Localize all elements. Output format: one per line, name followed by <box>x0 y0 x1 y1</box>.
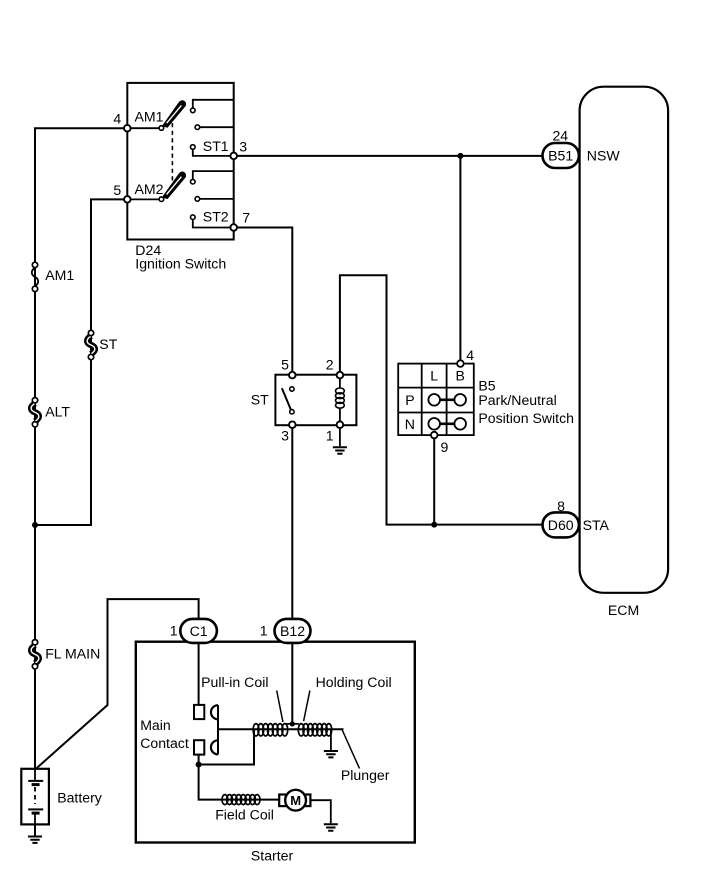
svg-text:8: 8 <box>557 498 565 514</box>
svg-text:7: 7 <box>242 209 250 225</box>
svg-text:N: N <box>405 416 415 432</box>
svg-text:Contact: Contact <box>140 735 189 751</box>
svg-text:Battery: Battery <box>57 790 103 806</box>
svg-text:1: 1 <box>326 428 334 444</box>
svg-text:AM1: AM1 <box>45 267 74 283</box>
svg-text:9: 9 <box>441 439 449 455</box>
svg-text:ST1: ST1 <box>203 138 229 154</box>
svg-text:B12: B12 <box>280 623 305 639</box>
svg-text:FL MAIN: FL MAIN <box>45 646 100 662</box>
svg-text:Pull-in Coil: Pull-in Coil <box>201 674 268 690</box>
svg-text:24: 24 <box>552 127 568 143</box>
svg-text:Field Coil: Field Coil <box>215 807 274 823</box>
svg-text:2: 2 <box>326 357 334 373</box>
svg-text:STA: STA <box>583 517 610 533</box>
svg-text:ECM: ECM <box>608 602 639 618</box>
svg-text:NSW: NSW <box>587 147 621 163</box>
svg-text:AM2: AM2 <box>135 181 164 197</box>
svg-text:4: 4 <box>113 111 121 127</box>
svg-text:B: B <box>455 368 464 384</box>
svg-text:D60: D60 <box>548 517 574 533</box>
svg-text:5: 5 <box>113 182 121 198</box>
svg-text:ALT: ALT <box>45 403 70 419</box>
svg-text:ST: ST <box>99 336 117 352</box>
svg-text:1: 1 <box>260 623 268 639</box>
svg-text:5: 5 <box>281 357 289 373</box>
svg-text:4: 4 <box>466 347 474 363</box>
svg-text:Position Switch: Position Switch <box>478 410 574 426</box>
svg-text:Starter: Starter <box>251 848 294 864</box>
svg-text:C1: C1 <box>190 623 208 639</box>
svg-text:M: M <box>290 793 301 808</box>
svg-text:ST2: ST2 <box>203 208 229 224</box>
svg-text:Plunger: Plunger <box>341 767 390 783</box>
svg-text:P: P <box>405 392 414 408</box>
svg-text:ST: ST <box>251 392 269 408</box>
svg-text:Holding Coil: Holding Coil <box>316 674 392 690</box>
svg-text:Ignition Switch: Ignition Switch <box>135 255 226 271</box>
svg-text:3: 3 <box>281 428 289 444</box>
svg-text:Park/Neutral: Park/Neutral <box>478 392 556 408</box>
svg-text:Main: Main <box>140 717 171 733</box>
svg-text:B51: B51 <box>548 148 573 164</box>
svg-text:3: 3 <box>239 139 247 155</box>
svg-text:L: L <box>430 368 438 384</box>
svg-text:1: 1 <box>170 623 178 639</box>
svg-text:AM1: AM1 <box>135 109 164 125</box>
